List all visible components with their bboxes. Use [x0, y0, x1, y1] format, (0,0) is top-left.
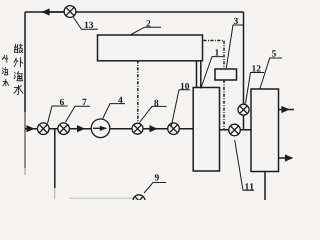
condenser 5 [251, 89, 279, 172]
wire pipe rect10 to condenser 5 via valve 11 [220, 129, 252, 131]
label 13 [74, 18, 99, 30]
label 9 [144, 174, 166, 193]
valve 9 (cut off at bottom edge) [133, 195, 145, 207]
tank 2 (expansion tank) [98, 35, 203, 61]
column 10 [193, 88, 219, 172]
label 10 [171, 83, 190, 126]
pump 4 [91, 119, 110, 138]
label 12 [246, 65, 265, 103]
valve 7 [58, 123, 70, 135]
char wai (outside) [14, 58, 23, 67]
valve 13 [64, 6, 76, 18]
label 5 [260, 50, 282, 88]
valve 11 [229, 124, 241, 136]
label 4 [103, 97, 126, 119]
wire drain below condenser 5 [264, 172, 266, 201]
valve 6 [38, 123, 50, 135]
char shui (water) [14, 85, 23, 94]
valve 12 [238, 104, 249, 115]
char xian (boat) [14, 44, 22, 53]
wire bottom main suction pipe [25, 128, 193, 130]
label 1 [201, 49, 223, 88]
node cut-off glyphs at left page edge [2, 55, 9, 86]
wire left seawater main vertical [24, 12, 26, 112]
label 3 [226, 18, 243, 68]
wire pipes between tank 2 and column 10 [196, 61, 198, 88]
wire top overboard discharge pipe [25, 11, 244, 13]
label 8 [140, 100, 167, 123]
label 11 [235, 140, 255, 190]
arrow overboard (points left) [43, 11, 65, 13]
arrow suction inlet [26, 128, 34, 130]
valve 8 [132, 123, 143, 134]
controller box 3 [215, 69, 237, 80]
wire control dash-dot from tank 2 to box 3 and valve 11 junction [138, 41, 224, 130]
wire right riser to valve 12 [243, 12, 245, 105]
label 6 [48, 99, 68, 124]
wire control dash-dot from tank 2 down to valve 8 [137, 61, 139, 124]
node seawater text (vertical Chinese glyphs drawn as strokes) [14, 44, 23, 94]
char hai (sea) [14, 72, 23, 81]
wire bottom cross pipe [70, 197, 133, 199]
arrow condenser outlet lower [279, 157, 292, 159]
arrow condenser outlet upper [279, 109, 289, 111]
label 2 [131, 20, 161, 34]
wire branch down from suction pipe [54, 129, 56, 188]
valve at column 10 inlet [168, 123, 180, 135]
arrow after valve 8 [146, 128, 157, 130]
label 7 [66, 99, 91, 122]
arrow after valve 7 [74, 128, 84, 130]
